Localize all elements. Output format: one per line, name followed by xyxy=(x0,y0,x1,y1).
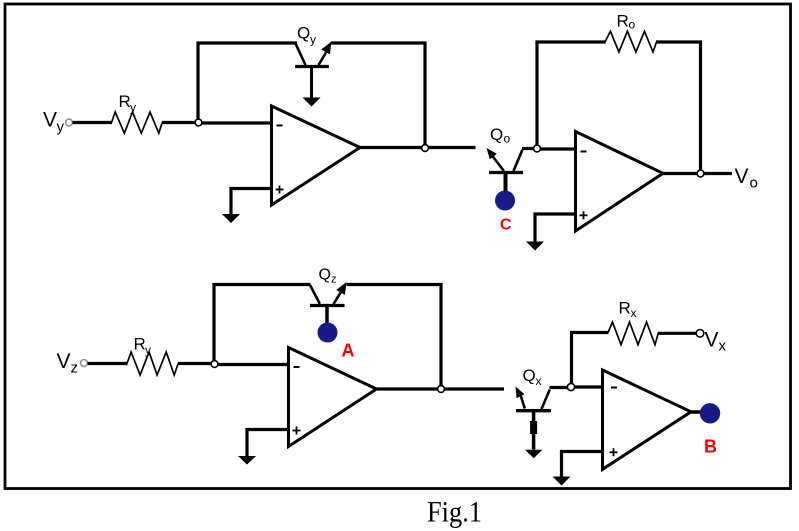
terminal Vx xyxy=(696,330,704,338)
wire xyxy=(658,332,697,335)
terminal Vy xyxy=(66,119,73,126)
op-amp U1 xyxy=(272,106,361,205)
svg-text:A: A xyxy=(342,341,355,361)
node N5 xyxy=(211,361,218,368)
node C dot xyxy=(495,191,515,211)
terminal Vz xyxy=(81,360,88,367)
svg-text:R: R xyxy=(617,11,629,30)
svg-text:x: x xyxy=(719,338,727,355)
label Vx xyxy=(705,329,727,355)
wire xyxy=(231,189,272,215)
wire xyxy=(198,43,297,120)
svg-text:V: V xyxy=(43,109,57,132)
label Qo xyxy=(490,125,511,146)
transistor Qo xyxy=(487,148,524,191)
wire xyxy=(537,42,606,145)
ground xyxy=(553,477,571,486)
op-amp U4 xyxy=(603,370,692,469)
wire xyxy=(562,452,603,478)
wire xyxy=(550,386,569,389)
svg-text:y: y xyxy=(145,343,151,357)
svg-text:V: V xyxy=(705,329,719,352)
svg-text:R: R xyxy=(134,335,146,354)
node N6 xyxy=(438,386,445,393)
ground xyxy=(303,98,321,107)
svg-text:Q: Q xyxy=(297,24,310,43)
svg-text:z: z xyxy=(71,360,79,377)
wire xyxy=(331,43,425,146)
svg-text:R: R xyxy=(619,299,631,318)
op-amp U3 xyxy=(289,348,377,447)
transistor Qz xyxy=(310,282,347,323)
wire xyxy=(88,362,128,365)
node N1 xyxy=(195,119,202,126)
svg-text:B: B xyxy=(704,436,717,456)
svg-text:Q: Q xyxy=(523,366,536,385)
svg-text:V: V xyxy=(57,350,71,373)
resistor Ro xyxy=(605,31,657,52)
svg-text:Q: Q xyxy=(319,267,331,284)
svg-text:y: y xyxy=(130,101,136,115)
label Qz xyxy=(319,267,337,286)
label Ry xyxy=(119,92,137,115)
wire xyxy=(218,363,289,366)
ground xyxy=(525,450,543,459)
wire xyxy=(541,147,576,150)
ground xyxy=(526,242,544,251)
wire xyxy=(572,333,609,385)
label Vy xyxy=(43,109,65,136)
resistor Rx xyxy=(608,322,659,345)
svg-text:V: V xyxy=(735,165,749,188)
label Qy xyxy=(297,24,316,47)
op-amp U2 xyxy=(576,132,664,232)
label Vo xyxy=(735,165,758,192)
wire xyxy=(178,362,212,365)
wire xyxy=(575,385,603,388)
wire xyxy=(73,121,113,124)
svg-text:Fig.1: Fig.1 xyxy=(427,496,482,529)
label Ro xyxy=(617,11,636,31)
transistor Qx xyxy=(516,387,552,450)
resistor Ry xyxy=(112,112,163,133)
label Qx xyxy=(523,366,542,388)
svg-text:Q: Q xyxy=(490,125,503,144)
wire xyxy=(522,147,535,150)
svg-text:o: o xyxy=(504,132,511,146)
wire xyxy=(214,285,311,362)
svg-text:R: R xyxy=(119,92,131,111)
resistor Ry2 xyxy=(127,352,178,375)
svg-text:z: z xyxy=(331,274,337,286)
wire xyxy=(377,387,505,390)
wire xyxy=(663,172,732,175)
svg-text:C: C xyxy=(500,217,512,234)
svg-text:o: o xyxy=(750,175,758,192)
wire xyxy=(162,121,196,124)
svg-text:x: x xyxy=(631,306,637,320)
node B dot xyxy=(700,403,720,423)
wire xyxy=(247,430,289,457)
node A dot xyxy=(318,323,338,343)
svg-text:x: x xyxy=(536,374,542,388)
label Rx xyxy=(619,299,637,321)
node N2 xyxy=(422,145,429,152)
label Vz xyxy=(57,350,79,377)
svg-text:o: o xyxy=(629,18,636,32)
wire xyxy=(535,214,576,243)
node N7 xyxy=(567,383,574,390)
wire xyxy=(202,121,272,124)
ground xyxy=(222,214,240,223)
label Ry2 xyxy=(134,335,152,358)
node N4 xyxy=(697,170,704,177)
transistor Qy xyxy=(295,42,332,99)
wire xyxy=(360,146,476,149)
wire xyxy=(691,410,701,414)
ground xyxy=(238,456,256,465)
svg-text:y: y xyxy=(57,119,65,136)
node N3 xyxy=(534,145,541,152)
wire xyxy=(347,285,442,388)
wire xyxy=(656,42,701,172)
svg-text:y: y xyxy=(310,33,316,47)
